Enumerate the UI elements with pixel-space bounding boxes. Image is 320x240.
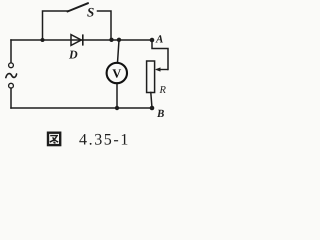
wire: left vertical below AC source <box>10 88 12 108</box>
junction: switch left branch <box>41 38 45 42</box>
svg-text:D: D <box>68 48 78 62</box>
wire: voltmeter top stub <box>118 40 120 63</box>
svg-text:4.35-1: 4.35-1 <box>79 131 130 148</box>
wire: voltmeter bottom stub <box>116 83 118 108</box>
AC source terminal (bottom circle) <box>9 83 14 88</box>
junction: voltmeter top <box>117 38 121 42</box>
wire: top main horizontal <box>11 39 152 41</box>
svg-text:B: B <box>156 108 164 120</box>
junction: switch right branch <box>109 38 113 42</box>
rheostat R body <box>147 61 155 93</box>
svg-text:A: A <box>155 34 163 46</box>
wire: node A down-right to rheostat slider <box>152 40 168 70</box>
node A dot <box>150 38 155 43</box>
AC source terminal (top circle) <box>9 63 14 68</box>
node B dot <box>150 106 155 111</box>
wire: switch branch left riser <box>43 11 69 40</box>
switch S blade <box>68 3 89 11</box>
wire: left vertical to AC source top terminal <box>10 40 12 63</box>
wire: rheostat bottom stub to node B <box>151 93 152 109</box>
svg-text:V: V <box>112 67 121 81</box>
voltmeter V circle <box>107 63 127 83</box>
diode D triangle <box>71 35 81 46</box>
junction: voltmeter bottom <box>115 106 119 110</box>
svg-text:R: R <box>159 85 167 96</box>
wire: bottom main horizontal <box>11 107 152 109</box>
rheostat slider arrow <box>157 69 169 71</box>
diode D cathode bar <box>82 34 84 45</box>
svg-text:S: S <box>87 5 94 20</box>
caption character 图 (drawn) <box>48 133 60 145</box>
wire: switch branch right side down to main wire <box>98 11 112 40</box>
AC source tilde <box>6 74 17 78</box>
